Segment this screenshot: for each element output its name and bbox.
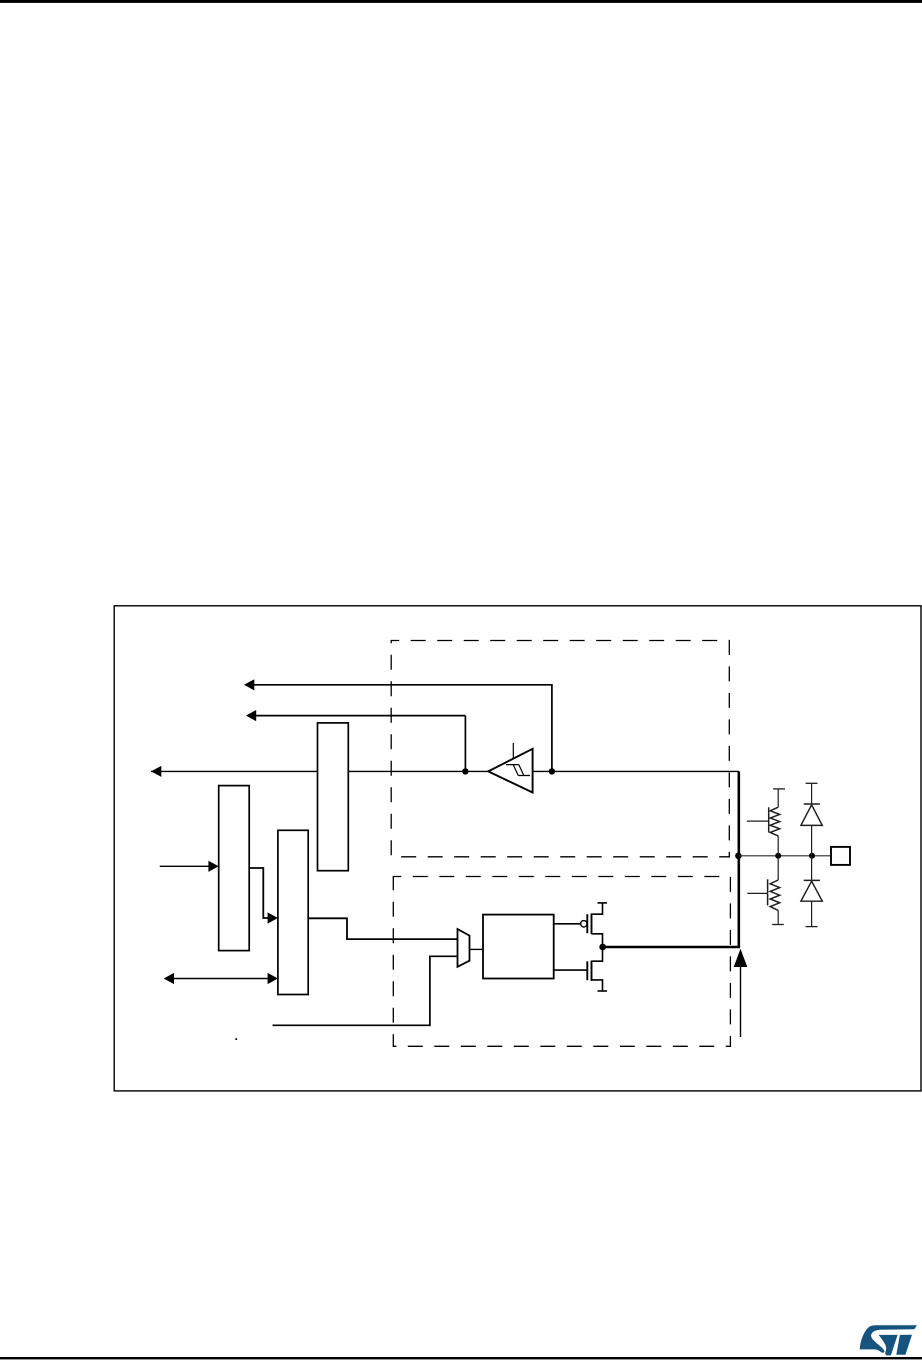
schmitt trigger U1 (input buffer) <box>488 749 532 793</box>
transistor Q2 drain to node <box>592 947 603 961</box>
wire: pull-up control <box>747 820 769 822</box>
transistor Q1 source to VDD <box>592 903 603 914</box>
diode D2 (protection to VSS) <box>804 879 820 881</box>
power bar VDD (Q1) <box>598 902 608 904</box>
wire: register A to register B step <box>249 868 268 918</box>
output control box U2 <box>483 915 554 979</box>
switch bar (pull-down on/off) <box>767 879 769 905</box>
wire: register A input arrow <box>160 865 209 867</box>
transistor Q1 channel bar <box>591 914 593 935</box>
ground bar VSS (D2) <box>806 926 818 928</box>
wire <box>811 783 813 804</box>
ST logo <box>860 1325 917 1355</box>
register C (output data register, tall) <box>318 723 349 871</box>
wire <box>777 910 779 924</box>
arrowhead left on main line <box>151 766 161 777</box>
wire <box>811 856 813 881</box>
node: junction dot on main line (arrow2 tap) <box>462 768 468 774</box>
wire: analog input/output arrow <box>740 967 742 1038</box>
wire <box>777 836 779 856</box>
power bar VDD (pull-up R1) <box>773 788 785 790</box>
power bar VDD_FT (diode D1) <box>806 782 818 784</box>
wire <box>777 856 779 880</box>
wire: read path 2 (second arrow) <box>256 715 466 717</box>
resistor R2 (weak pull-down) <box>770 880 780 910</box>
node: pull resistor junction dot <box>775 853 781 859</box>
wire: main input line (pad to left arrow) <box>151 770 739 772</box>
node: pad column junction dot <box>735 853 742 860</box>
ground bar VSS (Q2) <box>598 990 608 992</box>
transistor Q2 channel bar <box>591 961 593 981</box>
node: output driver node dot <box>599 944 606 951</box>
transistor Q2 source to VSS <box>592 980 603 991</box>
dashed box: output driver section <box>393 877 730 1047</box>
arrowhead left arrow1 <box>244 679 254 690</box>
wire: bidirectional bus arrow <box>173 978 269 980</box>
inversion bubble Q1 <box>581 921 587 927</box>
wire <box>811 901 813 926</box>
ground bar VSS (R2) <box>772 924 784 926</box>
wire: read path 1 (top arrow) <box>254 685 552 772</box>
wire <box>811 825 813 855</box>
wire: trigger enable stub <box>512 743 514 759</box>
hysteresis glyph <box>506 765 530 776</box>
register A (left tall register) <box>219 786 250 951</box>
wire <box>777 789 779 807</box>
dashed box: input driver section <box>391 641 729 857</box>
wire: mux output to output control box <box>470 948 484 950</box>
wire: pull-down control <box>747 892 767 894</box>
diode D1 (protection to VDD_FT) <box>804 803 820 805</box>
arrowhead left arrow2 <box>246 710 256 721</box>
transistor Q2 gate bar <box>586 961 588 980</box>
wire: line to pad <box>739 855 831 857</box>
header rule <box>0 0 922 3</box>
wire: thick pad column vertical <box>737 771 740 947</box>
I/O pad square <box>831 847 850 865</box>
register B (middle tall register) <box>278 830 308 994</box>
stray caption dot <box>235 1038 237 1040</box>
transistor Q1 gate bar <box>586 914 588 933</box>
transistor Q1 drain to node <box>592 934 603 947</box>
footer rule <box>0 1357 922 1359</box>
transistor Q1 (P-MOS) gate wire <box>554 923 581 925</box>
wire: register B to mux upper input <box>308 918 458 939</box>
resistor R1 (weak pull-up) <box>770 807 780 836</box>
multiplexer M1 <box>458 929 470 967</box>
switch bar (pull-up on/off) <box>768 807 770 832</box>
node: diode chain junction dot <box>809 853 815 859</box>
wire: thick output line to pad column <box>603 946 740 948</box>
node: junction dot on main line (arrow1 tap) <box>549 768 555 774</box>
figure frame <box>114 606 921 1091</box>
transistor Q2 (N-MOS) gate wire <box>554 969 588 971</box>
wire: lower control line to mux lower input <box>273 956 458 1025</box>
